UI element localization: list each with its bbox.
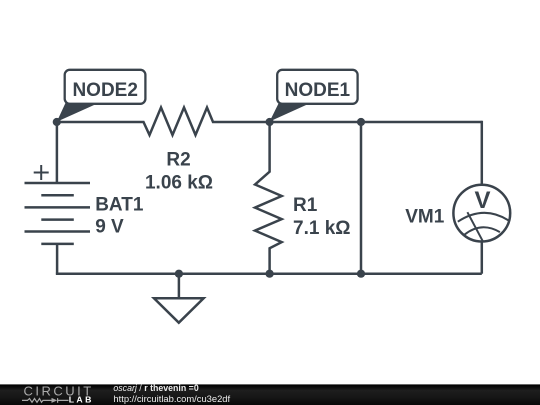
node NODE2 callout box (65, 70, 146, 104)
battery BAT1 top lead (56, 122, 59, 183)
voltmeter VM1 needle (467, 212, 482, 241)
voltmeter VM1 scale arc lower (464, 227, 500, 234)
svg-text:V: V (474, 187, 490, 214)
CircuitLab logo diode bar and wire (58, 398, 69, 403)
CircuitLab logo schematic line with resistor (22, 399, 52, 403)
wire right top (to voltmeter) (481, 121, 484, 185)
svg-text:VM1: VM1 (405, 206, 445, 227)
svg-text:9 V: 9 V (95, 217, 124, 238)
battery BAT1 bottom lead (56, 244, 59, 275)
svg-text:BAT1: BAT1 (95, 195, 144, 216)
svg-text:NODE1: NODE1 (285, 80, 351, 101)
wire right bottom (from voltmeter) (481, 241, 484, 274)
battery BAT1 plates (25, 183, 91, 244)
junction dot bottom R1 (266, 270, 274, 278)
svg-text:NODE2: NODE2 (72, 80, 137, 101)
svg-text:http://circuitlab.com/cu3e2df: http://circuitlab.com/cu3e2df (113, 393, 230, 404)
ground (154, 298, 204, 322)
svg-text:1.06 kΩ: 1.06 kΩ (145, 173, 213, 194)
wire middle vertical (short) (360, 122, 363, 274)
svg-text:7.1 kΩ: 7.1 kΩ (293, 218, 351, 239)
resistor R2 (57, 108, 270, 136)
wire top (NODE1 to right corner) (270, 121, 482, 124)
CircuitLab logo diode (52, 398, 58, 403)
node NODE2 callout pointer (57, 101, 99, 122)
footer bar (0, 384, 540, 405)
svg-text:oscarj / r thevenin =0: oscarj / r thevenin =0 (113, 383, 198, 393)
ground stub (178, 274, 181, 299)
svg-text:R2: R2 (166, 149, 190, 170)
node NODE1 callout box (277, 70, 357, 104)
battery BAT1 plus sign (34, 165, 49, 180)
svg-text:LAB: LAB (69, 395, 94, 405)
junction dot bottom middle (357, 270, 365, 278)
node B junction dot (NODE1) (266, 118, 274, 126)
voltmeter VM1 scale arc upper (458, 213, 509, 222)
junction dot ground (175, 270, 183, 278)
voltmeter VM1 circle (453, 185, 510, 242)
wire bottom (56, 272, 482, 275)
resistor R1 (255, 122, 282, 274)
svg-text:R1: R1 (293, 195, 318, 216)
junction dot top middle (357, 118, 365, 126)
node NODE1 callout pointer (270, 102, 311, 122)
node A junction dot (NODE2) (53, 118, 61, 126)
